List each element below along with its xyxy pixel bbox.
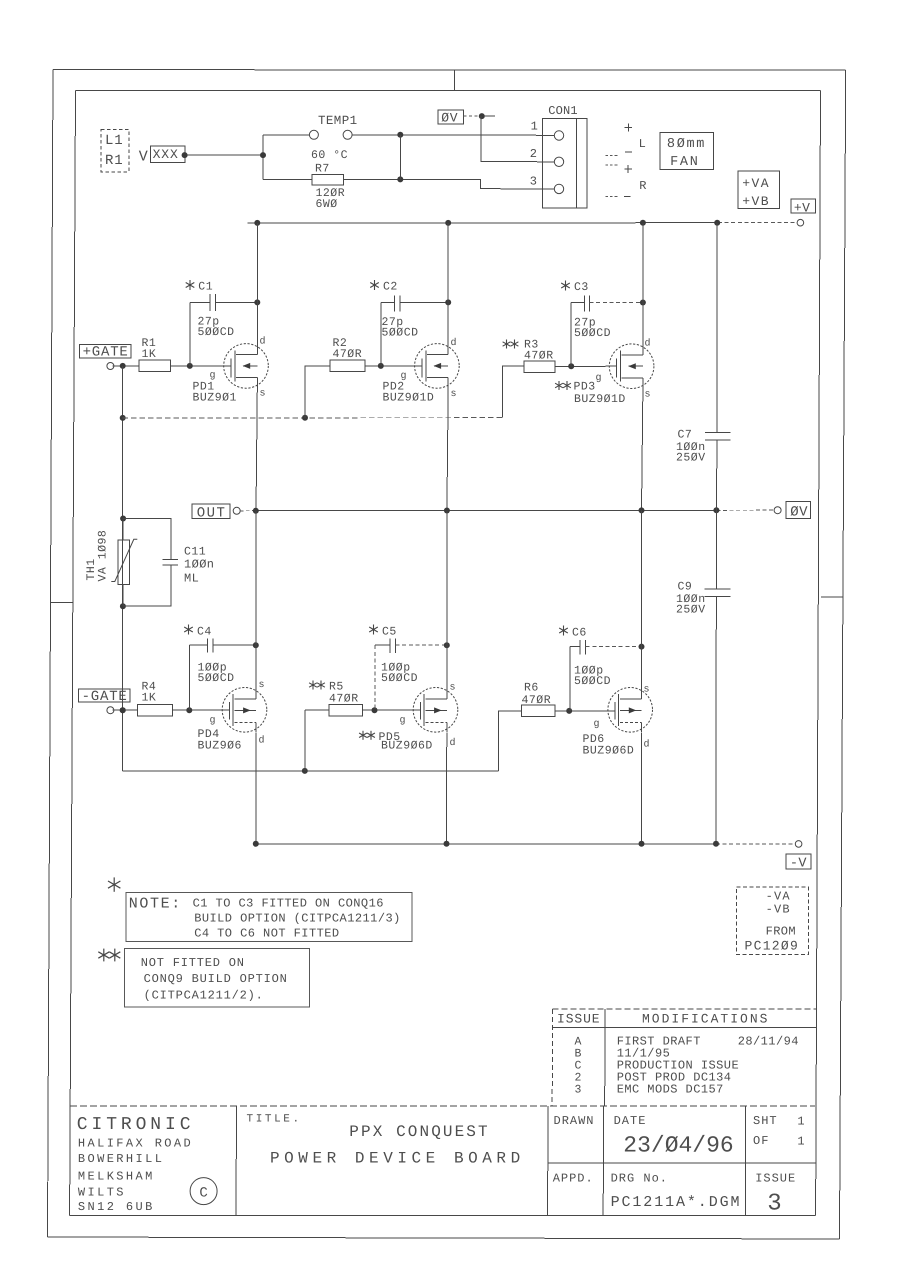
resistor R7 120R 6W0 (263, 163, 400, 211)
svg-text:BUZ9Ø1D: BUZ9Ø1D (574, 393, 626, 406)
svg-text:C6: C6 (572, 627, 587, 640)
svg-text:47ØR: 47ØR (329, 692, 359, 705)
svg-text:3: 3 (767, 1190, 781, 1217)
capacitor C2 27p 500CD (370, 280, 448, 366)
svg-text:DRAWN: DRAWN (554, 1114, 595, 1128)
issue row C (575, 1058, 740, 1072)
svg-text:+VB: +VB (742, 194, 770, 209)
junction R7 right (397, 176, 403, 182)
wire R6 branch (499, 711, 522, 771)
svg-text:SN12 6UB: SN12 6UB (78, 1200, 155, 1214)
wire R1 to PD1 gate (171, 365, 232, 367)
wire R6 to PD6 gate (555, 710, 615, 712)
net -V label (786, 854, 811, 872)
wire OUT bus dashed left (240, 510, 256, 512)
resistor R6 470R (522, 682, 556, 717)
junction -V C9 rail (713, 841, 719, 847)
capacitor C1 27p 500CD (186, 280, 258, 366)
wire left gate rail (122, 366, 124, 771)
svg-text:CITRONIC: CITRONIC (77, 1115, 195, 1135)
svg-text:d: d (260, 336, 266, 348)
svg-text:BUILD OPTION (CITPCA1211/3): BUILD OPTION (CITPCA1211/3) (194, 912, 401, 926)
svg-text:+VA: +VA (742, 176, 770, 191)
svg-text:OF: OF (753, 1134, 769, 1148)
junction C3/drain (640, 300, 646, 306)
net -VA -VB FROM PC1209 box (737, 887, 809, 955)
net +GATE label (79, 344, 130, 360)
svg-text:(CITPCA1211/2).: (CITPCA1211/2). (144, 989, 264, 1003)
svg-text:PC1211A*.DGM: PC1211A*.DGM (611, 1194, 742, 1211)
fan terminal + L (625, 124, 633, 132)
capacitor C7 100n 250V (676, 429, 731, 465)
node A vertical (262, 135, 264, 180)
svg-text:2: 2 (530, 147, 537, 161)
issue row 2 (575, 1070, 732, 1084)
junction at XXX box (182, 152, 188, 158)
svg-text:TEMP1: TEMP1 (318, 114, 358, 128)
svg-text:g: g (400, 716, 406, 727)
sheet label (753, 1114, 805, 1148)
terminal -V (795, 841, 802, 848)
svg-text:+V: +V (794, 200, 810, 215)
junction C5/source (444, 642, 450, 648)
wire R5 branch horizontal (305, 709, 329, 711)
issue row A (575, 1034, 799, 1048)
svg-text:BUZ9Ø6D: BUZ9Ø6D (583, 745, 635, 758)
wire -V bus dashed end (716, 843, 794, 845)
svg-text:5ØØCD: 5ØØCD (198, 672, 235, 685)
wire R7 to CON1 pin 3 step (400, 179, 554, 189)
svg-text:d: d (451, 337, 457, 349)
wire PD2 source to OUT (447, 389, 448, 511)
wire +GATE to R1 (113, 365, 140, 367)
svg-text:BUZ9Ø1: BUZ9Ø1 (193, 392, 237, 405)
node V / XXX input label (139, 146, 185, 166)
svg-text:FAN: FAN (670, 155, 699, 170)
wire + gate drive bus dashed (123, 417, 503, 419)
junction +V PD2 (445, 220, 451, 226)
svg-text:PC12Ø9: PC12Ø9 (745, 939, 800, 954)
wire PD5 source rail (446, 511, 448, 688)
capacitor C9 100n 250V (676, 581, 731, 617)
svg-text:WILTS: WILTS (78, 1185, 126, 1199)
svg-text:XXX: XXX (153, 147, 179, 162)
transistor PD5 BUZ906D (359, 683, 458, 753)
company name CITRONIC (77, 1115, 195, 1214)
svg-text:ØV: ØV (790, 504, 808, 520)
80mm FAN box (660, 132, 713, 170)
junction +V C7 rail (714, 220, 720, 226)
junction C2/drain (445, 299, 451, 305)
svg-text:CON1: CON1 (548, 104, 578, 118)
junction R5 branch (302, 768, 308, 774)
wire R4 to PD4 gate (173, 709, 230, 711)
svg-text:V: V (139, 148, 148, 165)
issue row 3 (575, 1082, 724, 1096)
svg-text:ØV: ØV (441, 111, 458, 126)
junction -GATE rail (120, 707, 126, 713)
wire parallel link TEMP1/R7 (399, 135, 401, 180)
svg-text:C1 TO C3 FITTED ON CONQ16: C1 TO C3 FITTED ON CONQ16 (193, 897, 384, 911)
wire fan stub 1 (606, 154, 619, 156)
capacitor C3 27p 500CD (561, 281, 643, 367)
svg-text:C4: C4 (197, 626, 212, 639)
svg-text:d: d (450, 737, 456, 749)
wire PD4 drain to -V (255, 733, 257, 844)
net OUT label (192, 504, 230, 521)
terminal OUT (233, 507, 240, 514)
wire R3 to PD3 gate (555, 365, 617, 367)
wire fan stub 2 (606, 164, 619, 166)
svg-text:5ØØCD: 5ØØCD (381, 672, 418, 685)
svg-text:BUZ9Ø1D: BUZ9Ø1D (383, 392, 435, 405)
thermal switch TEMP1 (263, 114, 400, 162)
wire R2 branch (305, 366, 330, 418)
transistor PD3 BUZ901D (555, 338, 654, 407)
junction R3/C3 (568, 363, 574, 369)
junction -V PD4 (253, 841, 259, 847)
junction C1/drain (254, 299, 260, 305)
issue table header (557, 1012, 769, 1027)
svg-text:L1: L1 (105, 133, 123, 149)
junction gate bus top (120, 415, 126, 421)
svg-text:-VA: -VA (766, 890, 791, 904)
svg-text:3: 3 (575, 1083, 582, 1096)
svg-text:BUZ9Ø6D: BUZ9Ø6D (381, 740, 433, 753)
junction OUT PD3 (639, 507, 645, 513)
wire 0V to CON1 pin 2 (481, 116, 554, 162)
net +VA +VB box (738, 171, 779, 209)
svg-text:BUZ9Ø6: BUZ9Ø6 (198, 740, 242, 753)
svg-text:g: g (596, 373, 602, 384)
svg-text:d: d (644, 739, 650, 751)
wire -V bus (256, 843, 716, 845)
capacitor C5 100p 500CD (369, 625, 447, 711)
svg-text:6WØ: 6WØ (316, 198, 338, 211)
svg-text:1K: 1K (142, 692, 157, 705)
wire C7 to 0V bus (715, 440, 718, 511)
svg-text:C7: C7 (678, 429, 693, 442)
svg-text:PPX CONQUEST: PPX CONQUEST (349, 1123, 489, 1141)
svg-text:C9: C9 (678, 581, 693, 594)
svg-text:C: C (199, 1185, 207, 1201)
fan terminal - L (625, 151, 632, 153)
svg-text:5ØØCD: 5ØØCD (574, 675, 611, 688)
svg-text:d: d (259, 735, 265, 747)
note box build option (126, 893, 412, 942)
thermistor TH1 VA 1098 (85, 519, 137, 607)
junction R5/C5 (372, 707, 378, 713)
svg-text:25ØV: 25ØV (676, 603, 706, 616)
junction C4/source (253, 642, 259, 648)
wire C9 to -V bus (715, 597, 717, 844)
svg-text:8Ømm: 8Ømm (667, 137, 706, 152)
title block frame (70, 1106, 816, 1216)
svg-text:s: s (645, 390, 651, 401)
capacitor C11 100n ML (123, 519, 215, 607)
note double star marker (98, 949, 120, 962)
svg-text:TITLE.: TITLE. (247, 1114, 302, 1126)
svg-text:28/11/94: 28/11/94 (738, 1034, 799, 1048)
issue table frame (552, 1009, 816, 1106)
wire OUT bus (256, 509, 717, 511)
wire PD4 source rail (255, 511, 257, 688)
svg-text:1: 1 (797, 1115, 804, 1129)
svg-text:L: L (639, 137, 646, 151)
connector CON1 (543, 104, 588, 208)
junction node A (260, 152, 266, 158)
junction R1/C1 (187, 363, 193, 369)
svg-text:60 °C: 60 °C (311, 149, 348, 162)
svg-text:-V: -V (790, 857, 808, 872)
transistor PD2 BUZ901D (383, 337, 460, 405)
svg-text:5ØØCD: 5ØØCD (574, 327, 611, 340)
resistor R1 1K (139, 337, 171, 372)
wire +V bus (248, 222, 718, 224)
svg-text:1: 1 (531, 119, 538, 133)
svg-text:NOT FITTED ON: NOT FITTED ON (141, 956, 245, 970)
junction +V PD3 (640, 220, 646, 226)
junction R2 branch (302, 415, 308, 421)
junction OUT PD1 (253, 508, 259, 514)
resistor R2 470R (330, 337, 365, 372)
resistor R5 470R (309, 681, 362, 717)
wire -GATE to R4 (113, 709, 138, 711)
svg-text:C5: C5 (382, 626, 397, 639)
junction R4/C4 (186, 707, 192, 713)
svg-text:APPD.: APPD. (553, 1172, 594, 1186)
junction -V PD5 (444, 841, 450, 847)
wire PD1 source to OUT (256, 389, 257, 511)
svg-text:POWER DEVICE BOARD: POWER DEVICE BOARD (270, 1149, 525, 1167)
svg-text:5ØØCD: 5ØØCD (198, 326, 235, 339)
junction C6/source (639, 644, 645, 650)
svg-text:s: s (451, 389, 457, 400)
wire 0V bus to C9 (715, 510, 717, 589)
fan terminal + R (624, 165, 632, 173)
label L1 R1 box (101, 130, 129, 172)
wire PD3 drain rail (642, 223, 644, 345)
svg-text:C3: C3 (574, 281, 589, 294)
svg-text:1ØØn: 1ØØn (184, 558, 214, 572)
svg-text:23/Ø4/96: 23/Ø4/96 (623, 1133, 733, 1159)
junction 0V node (479, 113, 485, 119)
terminal +GATE (107, 363, 114, 370)
svg-text:DRG No.: DRG No. (611, 1172, 668, 1186)
svg-text:25ØV: 25ØV (676, 451, 706, 464)
svg-text:C2: C2 (383, 281, 398, 294)
svg-text:47ØR: 47ØR (333, 348, 363, 361)
wire PD5 drain to -V (446, 733, 448, 844)
svg-text:OUT: OUT (197, 505, 227, 521)
svg-text:-VB: -VB (766, 903, 791, 917)
terminal +V (797, 219, 804, 226)
note box not fitted (125, 949, 310, 1008)
wire PD3 source to OUT (642, 389, 643, 511)
svg-text:CONQ9 BUILD OPTION: CONQ9 BUILD OPTION (144, 972, 288, 986)
svg-text:s: s (260, 389, 266, 400)
net -GATE label (78, 689, 129, 705)
svg-text:s: s (450, 683, 456, 694)
capacitor C4 100p 500CD (184, 625, 256, 711)
net 0V top label (438, 110, 464, 126)
svg-text:C1: C1 (198, 281, 213, 294)
transistor PD6 BUZ906D (583, 685, 653, 758)
wire +V bus dashed end (718, 222, 796, 224)
svg-text:MELKSHAM: MELKSHAM (78, 1170, 155, 1184)
svg-text:-GATE: -GATE (82, 689, 128, 705)
fan terminal - R (624, 195, 631, 197)
junction OUT PD2 (444, 508, 450, 514)
wire - gate drive bus (123, 770, 499, 772)
resistor R3 470R (503, 339, 555, 373)
wire 0V stub (484, 115, 495, 117)
svg-text:3: 3 (530, 175, 537, 189)
wire TEMP1 to CON1 pin 1 (400, 134, 554, 136)
svg-text:d: d (645, 338, 651, 350)
svg-text:ML: ML (184, 572, 199, 586)
transistor PD1 BUZ901 (193, 336, 269, 405)
wire fan stub 3 (606, 196, 619, 198)
junction OUT C rail (713, 507, 719, 513)
junction R6/C6 (566, 708, 572, 714)
junction TH1 top (120, 516, 126, 522)
svg-text:C4 TO C6 NOT FITTED: C4 TO C6 NOT FITTED (194, 926, 339, 940)
terminal 0V right (774, 507, 781, 514)
svg-text:SHT: SHT (753, 1114, 778, 1128)
svg-text:s: s (644, 685, 650, 696)
issue row B (575, 1046, 671, 1060)
svg-text:g: g (210, 716, 216, 727)
wire R5 branch (304, 710, 306, 771)
junction R2/C2 (378, 363, 384, 369)
svg-text:HALIFAX ROAD: HALIFAX ROAD (78, 1136, 193, 1150)
svg-text:FROM: FROM (766, 925, 796, 939)
svg-text:s: s (259, 680, 265, 691)
svg-text:R1: R1 (105, 153, 123, 169)
svg-text:DATE: DATE (614, 1114, 647, 1128)
wire OUT bus dashed right (716, 509, 774, 511)
junction -GATE rail (120, 707, 126, 713)
svg-text:ISSUE: ISSUE (557, 1012, 601, 1027)
wire R5 to PD5 gate (363, 709, 421, 711)
svg-text:ISSUE: ISSUE (755, 1172, 796, 1186)
wire 0V dashed link (464, 115, 480, 117)
net 0V right label (786, 501, 811, 520)
junction +GATE rail (120, 363, 126, 369)
svg-text:MODIFICATIONS: MODIFICATIONS (642, 1012, 769, 1027)
wire PD2 drain rail (447, 223, 449, 344)
svg-text:NOTE:: NOTE: (129, 895, 182, 912)
wire R3 branch (502, 366, 524, 418)
net +V label (791, 199, 816, 215)
svg-text:PD3: PD3 (574, 381, 596, 394)
wire XXX to node (185, 154, 263, 156)
note single star marker (108, 877, 120, 891)
junction TEMP1 right (397, 132, 403, 138)
junction TH1 bottom (120, 603, 126, 609)
copyright symbol (190, 1178, 217, 1205)
wire PD1 drain rail (256, 223, 258, 344)
svg-text:EMC MODS DC157: EMC MODS DC157 (617, 1082, 724, 1096)
svg-text:1: 1 (797, 1134, 804, 1148)
wire R2 to PD2 gate (365, 365, 422, 367)
wire PD6 drain to -V (641, 733, 643, 844)
svg-text:BOWERHILL: BOWERHILL (78, 1152, 164, 1166)
terminal -GATE (107, 707, 114, 714)
resistor R4 1K (138, 681, 173, 717)
junction +V PD1 (254, 220, 260, 226)
svg-text:+GATE: +GATE (83, 345, 129, 361)
svg-text:R6: R6 (524, 682, 539, 695)
svg-text:VA 1Ø98: VA 1Ø98 (97, 530, 110, 582)
svg-text:5ØØCD: 5ØØCD (382, 327, 419, 340)
svg-text:R: R (639, 179, 646, 193)
wire PD6 source rail (641, 510, 643, 687)
wire +V to C7 (716, 223, 718, 433)
svg-text:R7: R7 (315, 163, 330, 176)
transistor PD4 BUZ906 (198, 680, 267, 753)
svg-text:1K: 1K (142, 348, 157, 361)
svg-text:g: g (594, 719, 600, 730)
junction -V PD6 (639, 841, 645, 847)
capacitor C6 100p 500CD (559, 626, 641, 711)
